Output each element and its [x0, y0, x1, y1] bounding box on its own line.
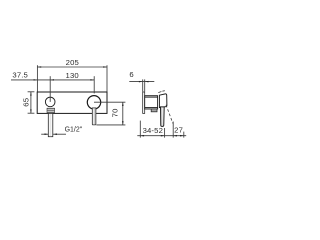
extension line handle (x=94.2) — [93, 76, 95, 93]
dimension 65 line — [30, 92, 32, 113]
bottom dimension line — [137, 135, 186, 137]
wall plate (side view, 6mm thick) — [143, 92, 145, 113]
svg-text:37.5: 37.5 — [12, 71, 28, 80]
lever (side view) — [161, 107, 165, 127]
dimension 130 / 37.5 chained line — [11, 79, 94, 81]
body inner line top — [145, 96, 158, 98]
svg-text:65: 65 — [22, 98, 31, 107]
dimension 27 arrows — [173, 135, 177, 137]
dimension 6 arrows (outside) — [139, 81, 143, 83]
wall plate (front view) — [37, 92, 107, 113]
extension line plate right edge (x=107) — [106, 65, 108, 91]
dimension 70 extension lines — [94, 101, 125, 103]
bottom extension line x=164.6 — [164, 128, 166, 138]
handle circle (front view) — [87, 96, 100, 109]
svg-text:70: 70 — [111, 108, 120, 117]
extension lines for 6mm thickness — [142, 79, 144, 91]
ghost lever swung out (dashed) — [166, 105, 173, 124]
dimension 205 line — [37, 66, 107, 68]
body inner line bottom — [145, 107, 158, 109]
bottom extension tick x=183.8 — [183, 132, 185, 138]
svg-text:34-52: 34-52 — [143, 126, 163, 135]
dimension 37.5 arrow (outside, left) — [34, 79, 38, 81]
dimension 205 arrows — [37, 66, 41, 68]
extension line plate left edge (x=37.4) — [36, 65, 38, 91]
spout connection circle — [45, 97, 55, 107]
dimension 34-52 arrows — [140, 135, 144, 137]
dimension G1/2 arrows and leader — [41, 133, 48, 135]
extension/centre line spout (x=50.2) — [49, 76, 51, 102]
dimension 70 line — [122, 102, 124, 125]
lever highlight — [92, 109, 94, 125]
valve body (side view) — [145, 96, 158, 109]
supply pipe G1/2 — [48, 113, 53, 136]
svg-text:6: 6 — [129, 70, 133, 79]
lever bar below handle circle (front view) — [92, 108, 96, 125]
svg-text:130: 130 — [66, 71, 79, 80]
outlet block below body (grey) — [151, 109, 157, 112]
ghost dash above dome (lever raised position) — [158, 92, 161, 93]
dimension 6 line — [129, 81, 154, 83]
dimension 65 extension ticks — [28, 91, 35, 93]
svg-text:205: 205 — [66, 58, 79, 67]
dimension 130 arrow right — [90, 79, 94, 81]
dimension 130 arrow left — [50, 79, 54, 81]
bottom extension line x=140.3 — [139, 121, 141, 138]
dimension 70 arrows — [122, 102, 124, 106]
svg-text:27: 27 — [174, 126, 183, 135]
dimension 65 arrows — [30, 92, 32, 96]
svg-text:G1/2": G1/2" — [65, 127, 83, 134]
threaded nut below spout circle — [47, 108, 55, 112]
handle dome cap (side view) — [159, 94, 167, 108]
bottom extension line x=173.2 — [172, 122, 174, 138]
